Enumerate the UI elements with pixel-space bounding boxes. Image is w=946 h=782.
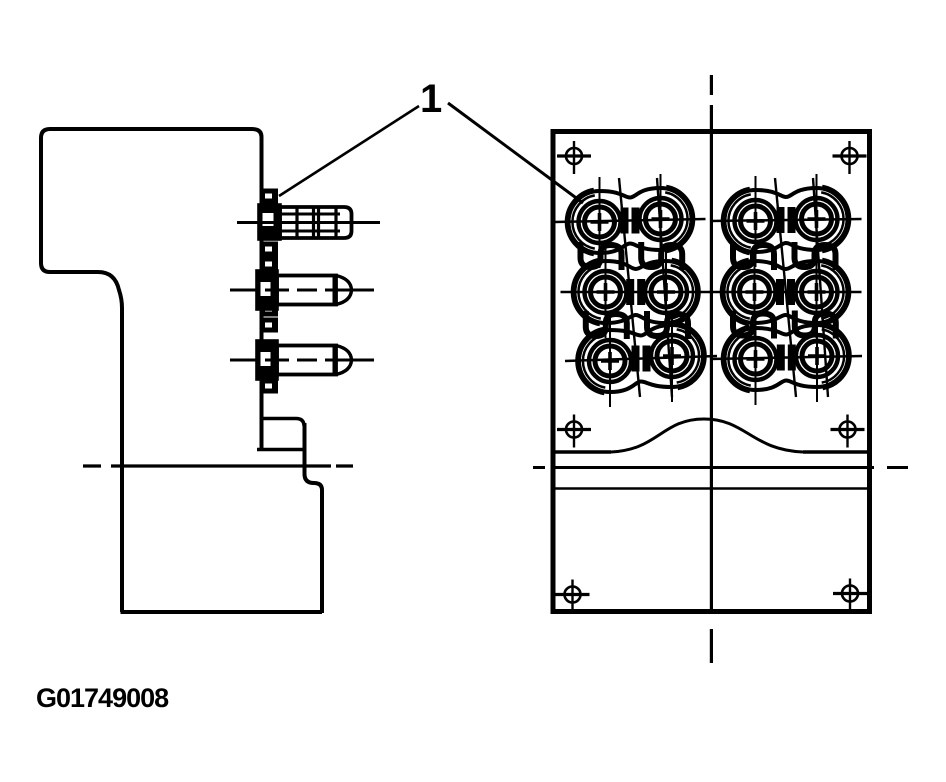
svg-text:1: 1 xyxy=(420,77,442,121)
right bore group xyxy=(710,174,863,405)
gasket shoulder line xyxy=(553,450,870,453)
oil passage loop gap 2 col 1 xyxy=(733,311,774,339)
oil passage loop gap 2 col 1 xyxy=(586,311,627,339)
lower parting line xyxy=(553,487,869,490)
drill axis line xyxy=(813,178,828,397)
valve plug P3 axis (dashed) xyxy=(230,359,374,362)
bore circle r1R rings xyxy=(796,198,838,240)
bore row 1 axis line xyxy=(555,219,706,222)
bore circle r2R rings xyxy=(645,271,687,313)
mounting screw at 572.5,594.5 xyxy=(556,580,590,613)
plug P1 axis xyxy=(237,221,380,224)
bore r2L center cross xyxy=(597,283,615,301)
horizontal centerline (dash-dot) xyxy=(533,466,908,469)
bore r1L center cross xyxy=(591,213,609,231)
left view: valve body side profile outline xyxy=(41,129,262,612)
bore row 1 stadium outline xyxy=(569,188,692,253)
bore circle r1L rings xyxy=(579,201,621,243)
left view centerline (dash-dot) xyxy=(83,464,353,467)
left view: serrated mounting edge spine xyxy=(260,188,264,450)
bore circle r3R rings xyxy=(796,335,838,377)
bore circle r3L rings xyxy=(589,340,631,382)
valve lands between bores row 3 xyxy=(781,345,792,371)
valve plug P3 flange xyxy=(257,341,277,379)
left bore group xyxy=(555,174,718,407)
valve lands between bores row 1 xyxy=(781,207,792,233)
bore row 3 axis line xyxy=(711,356,863,359)
left view: foot block xyxy=(257,419,304,450)
mounting screw at 574,429.5 xyxy=(557,415,591,448)
oil passage loop gap 2 col 2 xyxy=(647,311,688,339)
left view: bottom edge xyxy=(121,610,323,614)
bore r1R center cross xyxy=(808,210,826,228)
bore r2L center cross xyxy=(746,283,764,301)
bore row 3 stadium outline xyxy=(579,325,703,392)
bore r1R center cross xyxy=(652,210,670,228)
leader line to left view xyxy=(279,106,419,196)
mounting screw at 849.5,156 xyxy=(833,141,867,174)
valve plug P2 body xyxy=(277,276,336,305)
drill axis line xyxy=(619,178,640,397)
valve plug P2 flange xyxy=(257,271,277,309)
leader line to right view xyxy=(448,103,583,203)
bore row 2 axis line xyxy=(710,291,862,294)
serration tooth y258 xyxy=(262,258,277,270)
bore circle r2L rings xyxy=(734,271,776,313)
valve lands between bores row 2 xyxy=(780,279,791,305)
oil passage loop gap 2 col 2 xyxy=(795,311,836,339)
svg-text:G01749008: G01749008 xyxy=(36,683,169,713)
drill axis line xyxy=(657,178,672,397)
bore r3L center cross xyxy=(601,352,619,370)
solenoid plug P1 flange xyxy=(259,205,280,239)
serration tooth y190 xyxy=(262,190,277,202)
bore circle r1R rings xyxy=(640,198,682,240)
bore circle r1L rings xyxy=(735,200,777,242)
mounting screw at 847.5,429.5 xyxy=(831,415,865,448)
drill axis line xyxy=(775,178,796,397)
serration tooth y303 xyxy=(262,303,277,315)
bore circle r2L rings xyxy=(585,271,627,313)
bore r3R center cross xyxy=(808,347,826,365)
bore r1L center cross xyxy=(747,212,765,230)
serration tooth y243 xyxy=(262,243,277,255)
bore circle r2R rings xyxy=(796,271,838,313)
oil passage loop gap 1 col 2 xyxy=(641,242,682,270)
mounting screw at 574,156 xyxy=(557,141,591,174)
serration tooth y380 xyxy=(262,380,277,392)
right view: valve body face plate xyxy=(553,132,870,612)
vertical centerline (dash-dot) xyxy=(710,75,713,663)
bore r2R center cross xyxy=(657,283,675,301)
bore r3R center cross xyxy=(663,347,681,365)
bore row 1 axis line xyxy=(711,219,862,221)
bore row 2 axis line xyxy=(561,291,712,294)
bore row 3 stadium outline xyxy=(725,325,849,390)
bore r2R center cross xyxy=(808,283,826,301)
valve plug P3 body xyxy=(277,346,336,375)
mounting screw at 850,593.5 xyxy=(833,579,867,612)
bore circle r3R rings xyxy=(651,335,693,377)
plug P1 spool lines xyxy=(280,214,340,231)
oil passage loop gap 1 col 2 xyxy=(795,242,836,270)
left view: lower right edge with step xyxy=(305,423,323,613)
valve lands between bores row 2 xyxy=(630,279,641,305)
valve plug P2 bullet cap xyxy=(336,276,352,305)
valve plug P3 bullet cap xyxy=(336,346,352,375)
bore circle r3L rings xyxy=(735,338,777,380)
solenoid plug P1 body xyxy=(280,207,352,238)
bore row 3 axis line xyxy=(565,356,717,361)
bore r3L center cross xyxy=(747,350,765,368)
bore row 2 stadium outline xyxy=(724,261,848,323)
serration tooth y319 xyxy=(262,319,277,331)
oil passage loop gap 1 col 1 xyxy=(581,242,622,270)
valve lands between bores row 3 xyxy=(636,346,647,372)
bore row 2 stadium outline xyxy=(575,261,698,323)
gasket hump curve xyxy=(611,419,803,452)
valve lands between bores row 1 xyxy=(625,208,636,234)
bore row 1 stadium outline xyxy=(725,188,848,252)
valve plug P2 axis (dashed) xyxy=(230,289,374,292)
oil passage loop gap 1 col 1 xyxy=(733,242,774,270)
